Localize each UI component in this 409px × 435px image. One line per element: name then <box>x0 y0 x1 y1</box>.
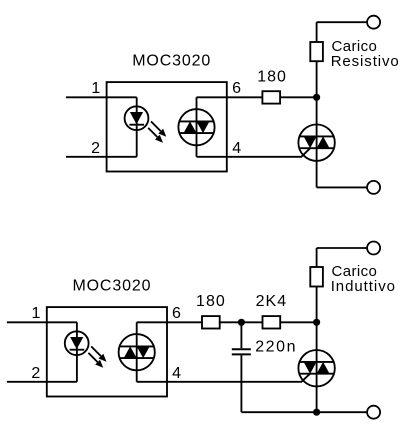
LED D1 cathode bar <box>129 124 144 126</box>
wire main vertical top section <box>316 22 318 42</box>
svg-text:2: 2 <box>91 140 100 157</box>
load resistor (Carico Resistivo) body <box>310 42 323 61</box>
svg-text:2: 2 <box>31 365 40 382</box>
node C junction dot <box>313 319 320 326</box>
triac T1 left triangle <box>304 136 317 148</box>
svg-text:2K4: 2K4 <box>256 293 287 310</box>
svg-text:180: 180 <box>257 69 287 86</box>
LED D1 triangle <box>130 112 143 124</box>
photo-diac upper bar <box>180 120 214 122</box>
wire bottom rail <box>241 411 367 413</box>
wire top to terminal (bottom circuit) <box>317 247 368 249</box>
triac T2 lower bar <box>300 373 333 375</box>
photo-diac left triangle (bottom) <box>124 346 137 358</box>
wire pin2 <box>66 156 137 158</box>
photo-diac lower bar (bottom) <box>120 357 154 359</box>
load resistor (Carico Induttivo) body <box>310 267 323 287</box>
LED D2 cathode bar <box>70 349 85 351</box>
wire pin1 (bottom) <box>7 321 77 323</box>
triac T1 upper bar <box>300 135 333 137</box>
photo-diac left triangle <box>184 121 197 133</box>
wire pin6 to resistor <box>197 96 263 98</box>
opto-coupler U2 MOC3020 body <box>47 307 167 396</box>
wire pin4 to gate <box>197 148 311 157</box>
triac T1 right triangle <box>317 136 330 148</box>
wire pin2 (bottom) <box>7 381 77 383</box>
wire load to node C <box>316 287 318 323</box>
wire pin6 to resistor (bottom) <box>137 321 202 323</box>
svg-text:6: 6 <box>172 305 181 322</box>
terminal bottom-right circle (bottom circuit) <box>367 406 380 419</box>
wire diac rail (bottom) <box>136 322 138 382</box>
LED emission arrow 1 <box>151 121 166 136</box>
svg-text:Resistivo: Resistivo <box>331 53 400 70</box>
wire resistor to node <box>280 96 317 98</box>
photo-diac upper bar (bottom) <box>120 345 154 347</box>
wire load to node <box>316 61 318 97</box>
wire triac to bottom terminal <box>317 186 368 188</box>
resistor R1 180 body <box>262 91 280 103</box>
opto-coupler U1 MOC3020 body <box>107 82 227 171</box>
LED D2 circle <box>65 331 89 355</box>
wire top to terminal <box>317 21 368 23</box>
LED emission arrow 2 <box>148 128 163 143</box>
wire LED rail (bottom) <box>76 322 78 382</box>
node A junction dot <box>313 94 320 101</box>
triac T2 circle <box>298 350 334 386</box>
svg-text:MOC3020: MOC3020 <box>132 53 211 70</box>
wire pin4 to gate (bottom) <box>137 374 310 382</box>
wire node B to R3 <box>241 321 262 323</box>
triac T1 circle <box>298 125 334 161</box>
wire main vertical (bottom circuit top) <box>316 248 318 267</box>
svg-text:Induttivo: Induttivo <box>331 278 396 295</box>
terminal top-right circle <box>367 16 380 29</box>
photo-diac circle <box>178 109 214 145</box>
terminal top-right circle (bottom circuit) <box>367 242 380 255</box>
wire R3 to node C <box>280 321 316 323</box>
wire LED rail <box>136 97 138 157</box>
node D junction dot <box>313 409 320 416</box>
wire node C through triac <box>316 322 318 412</box>
svg-text:4: 4 <box>232 140 241 157</box>
LED D2 triangle <box>70 337 83 349</box>
capacitor C1 bottom lead <box>240 355 242 412</box>
capacitor C1 top lead <box>240 322 242 348</box>
photo-diac circle (bottom) <box>119 334 155 370</box>
resistor R2 180 body <box>202 316 220 328</box>
svg-text:220n: 220n <box>255 338 297 355</box>
svg-text:6: 6 <box>232 80 241 97</box>
wire pin1 <box>66 96 137 98</box>
triac T2 left triangle <box>304 362 317 374</box>
svg-text:1: 1 <box>32 305 41 322</box>
svg-text:1: 1 <box>91 80 100 97</box>
capacitor C1 top plate <box>232 348 251 350</box>
svg-text:MOC3020: MOC3020 <box>72 278 151 295</box>
photo-diac right triangle (bottom) <box>137 346 150 358</box>
LED emission arrow 1 (bottom) <box>91 346 106 361</box>
LED D1 circle <box>125 106 149 130</box>
capacitor C1 bottom plate <box>232 353 251 355</box>
LED emission arrow 2 (bottom) <box>88 353 103 368</box>
wire R2 to node B <box>220 321 242 323</box>
wire node through triac <box>316 97 318 187</box>
terminal bottom-right circle (top circuit) <box>367 181 380 194</box>
node B junction dot <box>238 319 245 326</box>
resistor R3 2K4 body <box>263 316 281 328</box>
triac T1 lower bar <box>300 147 333 149</box>
photo-diac right triangle <box>197 121 210 133</box>
triac T2 upper bar <box>300 361 333 363</box>
triac T2 right triangle <box>317 362 330 374</box>
svg-text:180: 180 <box>196 293 226 310</box>
photo-diac lower bar <box>180 132 214 134</box>
svg-text:4: 4 <box>172 365 181 382</box>
wire diac rail <box>196 97 198 157</box>
